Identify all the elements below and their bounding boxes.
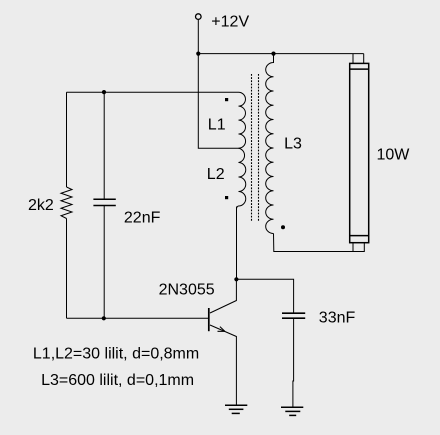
phase dot L1 (225, 98, 228, 101)
svg-text:L2: L2 (207, 166, 225, 183)
wire left rail down to resistor (66, 92, 68, 187)
phase dot L2 (225, 196, 228, 199)
wire 33nF bottom to ground (292, 318, 295, 407)
wire collector node to 33nF (236, 279, 293, 313)
wire base rail to transistor base (67, 317, 209, 319)
svg-text:2N3055: 2N3055 (159, 281, 215, 298)
transistor emitter arrow (218, 327, 225, 332)
svg-text:L3=600 lilit, d=0,1mm: L3=600 lilit, d=0,1mm (41, 372, 194, 389)
junction node B (L3 top / tube) (271, 52, 275, 56)
ground GND1 (emitter) (225, 405, 247, 413)
transistor Q1 2N3055 base bar (208, 308, 210, 331)
wire top rail from node A to tube top pin (198, 53, 363, 55)
fluorescent tube body (350, 63, 369, 242)
junction node (22nF bottom / base rail) (102, 316, 106, 320)
inductor L3 winding (266, 54, 274, 234)
svg-text:10W: 10W (377, 147, 411, 164)
inductor L2 winding (237, 148, 246, 209)
junction node (22nF top) (102, 90, 106, 94)
svg-text:L1: L1 (208, 117, 226, 134)
transformer core dashed lines (251, 74, 253, 222)
phase dot L3 (281, 225, 285, 229)
junction node A (196, 52, 200, 56)
svg-text:L1,L2=30 lilit, d=0,8mm: L1,L2=30 lilit, d=0,8mm (33, 346, 199, 363)
wire L3 bottom to tube bottom pin (274, 234, 354, 252)
transistor emitter lead (210, 325, 236, 405)
wire L2 bottom to collector node (236, 207, 238, 280)
fluorescent tube top pin (353, 54, 364, 64)
fluorescent tube bottom pin (353, 243, 364, 252)
wire L1 top to left rail (67, 91, 239, 93)
junction node C (collector) (234, 277, 238, 281)
wire from +12V terminal down to node A (197, 19, 199, 53)
svg-text:+12V: +12V (211, 14, 249, 31)
svg-text:2k2: 2k2 (28, 197, 54, 214)
wire 22nF top lead (103, 92, 105, 199)
resistor 2k2 zigzag (61, 187, 72, 219)
svg-text:33nF: 33nF (319, 309, 356, 326)
svg-text:22nF: 22nF (124, 209, 161, 226)
wire 22nF bottom lead (103, 206, 105, 319)
wire center-tap: node A down and right to L1/L2 junction (198, 54, 238, 149)
svg-text:L3: L3 (284, 136, 302, 153)
ground GND2 (33nF) (281, 407, 303, 415)
wire resistor bottom down to base rail (66, 219, 68, 319)
terminal +12V open circle (196, 14, 202, 20)
transistor collector lead (210, 279, 236, 313)
capacitor C1 22nF plates (93, 198, 115, 200)
capacitor C2 33nF plates (282, 312, 305, 314)
inductor L1 winding (239, 92, 246, 148)
